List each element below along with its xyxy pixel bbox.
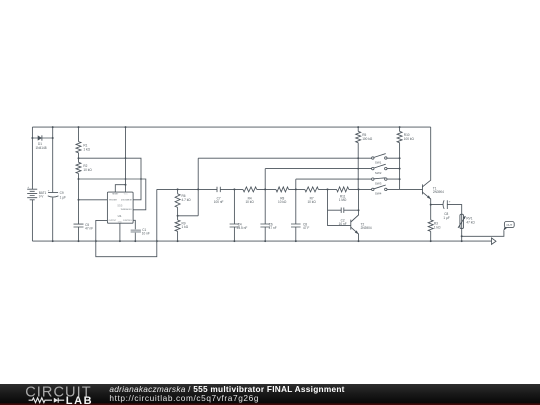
svg-text:TRIGGER: TRIGGER xyxy=(109,199,118,201)
node OUT flag xyxy=(503,222,514,232)
wire C9 column xyxy=(52,127,54,241)
svg-text:1N4148: 1N4148 xyxy=(35,146,46,150)
wire U1 ground lead xyxy=(119,223,121,241)
wire T1 emitter node xyxy=(430,199,432,220)
resistor R7 xyxy=(305,187,319,204)
wire ladder main line xyxy=(157,188,372,190)
wire C4 column xyxy=(233,189,235,241)
svg-text:LAB: LAB xyxy=(66,395,93,405)
svg-text:47 kΩ: 47 kΩ xyxy=(466,220,475,224)
capacitor C7 xyxy=(214,187,224,204)
switch SW2 xyxy=(372,164,387,175)
svg-text:OUT: OUT xyxy=(506,223,512,227)
node ground terminal xyxy=(492,238,497,244)
svg-text:1 kΩ: 1 kΩ xyxy=(182,225,189,229)
wire RV1 bottom lead xyxy=(461,229,463,242)
wire discharge net xyxy=(79,158,142,200)
svg-text:OUTPUT: OUTPUT xyxy=(109,220,117,222)
switch SW3 xyxy=(372,178,387,186)
svg-text:GND: GND xyxy=(118,222,123,224)
wire output feedback loop xyxy=(95,189,159,256)
capacitor C4 xyxy=(230,222,248,230)
wire R5 column xyxy=(357,127,359,189)
svg-text:SW4: SW4 xyxy=(375,192,382,196)
capacitor C6 xyxy=(260,222,276,230)
wire battery negative xyxy=(31,200,33,241)
svg-text:2N3904: 2N3904 xyxy=(433,190,444,194)
svg-text:SW2: SW2 xyxy=(375,171,382,175)
resistor R8 xyxy=(276,187,289,204)
capacitor C5 xyxy=(74,223,94,231)
wire R9 bottom lead xyxy=(177,231,179,241)
wire C8 column xyxy=(295,189,297,241)
transistor T2 xyxy=(351,215,372,234)
svg-text:1 kΩ: 1 kΩ xyxy=(83,147,90,151)
potentiometer RV1 xyxy=(458,214,475,228)
svg-text:100 kΩ: 100 kΩ xyxy=(362,137,373,141)
capacitor C8 xyxy=(443,200,451,220)
wire ground bottom rail xyxy=(32,240,491,242)
wire R2 bottom column xyxy=(78,174,80,225)
op-amp U1 555 timer xyxy=(107,192,133,224)
resistor R11 xyxy=(337,187,349,202)
footer bar xyxy=(0,384,540,405)
footer title text xyxy=(109,384,344,394)
wire diode branch xyxy=(31,137,53,139)
svg-text:CONTROL: CONTROL xyxy=(123,220,132,222)
CircuitLab logo schematic glyph xyxy=(29,398,65,403)
svg-text:9 V: 9 V xyxy=(39,195,45,199)
diode D1 xyxy=(35,135,46,150)
capacitor C1 xyxy=(131,228,150,236)
wire C5 bottom lead xyxy=(78,227,80,241)
svg-text:+: + xyxy=(48,188,50,192)
wire R1-R2 node xyxy=(78,153,80,163)
svg-text:+: + xyxy=(27,185,29,189)
resistor R10 xyxy=(397,131,414,142)
wire SW3 row xyxy=(296,178,372,189)
svg-text:100 nF: 100 nF xyxy=(214,200,224,204)
wire C6 column xyxy=(264,189,266,241)
svg-text:47 F: 47 F xyxy=(303,226,309,230)
wire battery positive xyxy=(31,127,33,189)
wire C8p branch xyxy=(431,205,462,215)
wire T1 base xyxy=(400,188,423,190)
svg-text:10 nF: 10 nF xyxy=(339,222,347,226)
svg-text:10 kΩ: 10 kΩ xyxy=(245,200,254,204)
wire R1 top lead xyxy=(78,127,80,142)
switch SW1 xyxy=(372,154,387,165)
resistor R5 xyxy=(356,131,373,142)
wire SW1 row xyxy=(198,157,371,216)
svg-text:555: 555 xyxy=(117,204,122,208)
svg-text:SW1: SW1 xyxy=(375,160,382,164)
transistor T1 xyxy=(423,180,445,199)
svg-text:1 µF: 1 µF xyxy=(443,216,449,220)
svg-text:VCC: VCC xyxy=(124,194,129,196)
wire T2 collector column xyxy=(358,189,360,215)
svg-text:2N3904: 2N3904 xyxy=(361,226,372,230)
svg-text:10 kΩ: 10 kΩ xyxy=(307,200,316,204)
switch SW4 xyxy=(372,185,387,196)
svg-text:SW3: SW3 xyxy=(375,181,382,185)
battery BAT1 xyxy=(27,185,46,200)
svg-text:47 nF: 47 nF xyxy=(85,226,93,230)
svg-text:U1: U1 xyxy=(118,214,122,218)
svg-text:10 kΩ: 10 kΩ xyxy=(83,168,92,172)
wire VCC top rail xyxy=(32,126,430,128)
svg-text:RESET: RESET xyxy=(112,194,119,196)
resistor R4 xyxy=(243,187,257,204)
wire OUT branch xyxy=(462,231,504,237)
resistor R6 xyxy=(175,194,191,208)
resistor R9 xyxy=(175,220,189,231)
footer url text xyxy=(109,393,259,403)
svg-text:DISCHARGE: DISCHARGE xyxy=(121,198,133,201)
svg-text:1 kΩ: 1 kΩ xyxy=(434,225,441,229)
svg-text:10 nF: 10 nF xyxy=(142,232,150,236)
svg-text:47 nF: 47 nF xyxy=(269,226,277,230)
svg-text:10 kΩ: 10 kΩ xyxy=(278,200,287,204)
svg-text:4.7 kΩ: 4.7 kΩ xyxy=(182,198,192,202)
resistor R3 xyxy=(428,220,441,231)
wire T2 emitter to rail xyxy=(358,234,360,241)
wire R6-R9 junction xyxy=(177,207,199,220)
wire SW right returns xyxy=(387,158,400,189)
wire R6 top lead xyxy=(177,189,179,193)
wire control pin column xyxy=(133,220,135,241)
wire SW2 row xyxy=(265,168,371,190)
wire threshold net xyxy=(79,178,146,210)
wire R10 column xyxy=(399,127,401,189)
wire VCC drop to U1 xyxy=(115,127,126,192)
capacitor C2 xyxy=(339,208,347,227)
resistor R2 xyxy=(76,162,92,173)
wire trigger net xyxy=(79,199,108,201)
resistor R1 xyxy=(76,142,91,153)
CircuitLab logo text xyxy=(25,384,93,405)
wire R3 bottom lead xyxy=(430,231,432,241)
svg-text:http://circuitlab.com/c5q7vfra: http://circuitlab.com/c5q7vfra7g26g xyxy=(109,393,259,403)
wire T1 collector to rail xyxy=(430,127,432,180)
capacitor C3 xyxy=(291,222,309,230)
svg-text:1 µF: 1 µF xyxy=(60,195,66,199)
svg-text:THRESHOLD: THRESHOLD xyxy=(121,209,133,211)
wire C2 branch xyxy=(328,189,359,225)
svg-text:100 kΩ: 100 kΩ xyxy=(404,137,415,141)
svg-text:23.5 nF: 23.5 nF xyxy=(237,226,248,230)
svg-text:1 MΩ: 1 MΩ xyxy=(339,198,347,202)
svg-text:+: + xyxy=(449,200,451,204)
capacitor C9 xyxy=(48,188,66,199)
